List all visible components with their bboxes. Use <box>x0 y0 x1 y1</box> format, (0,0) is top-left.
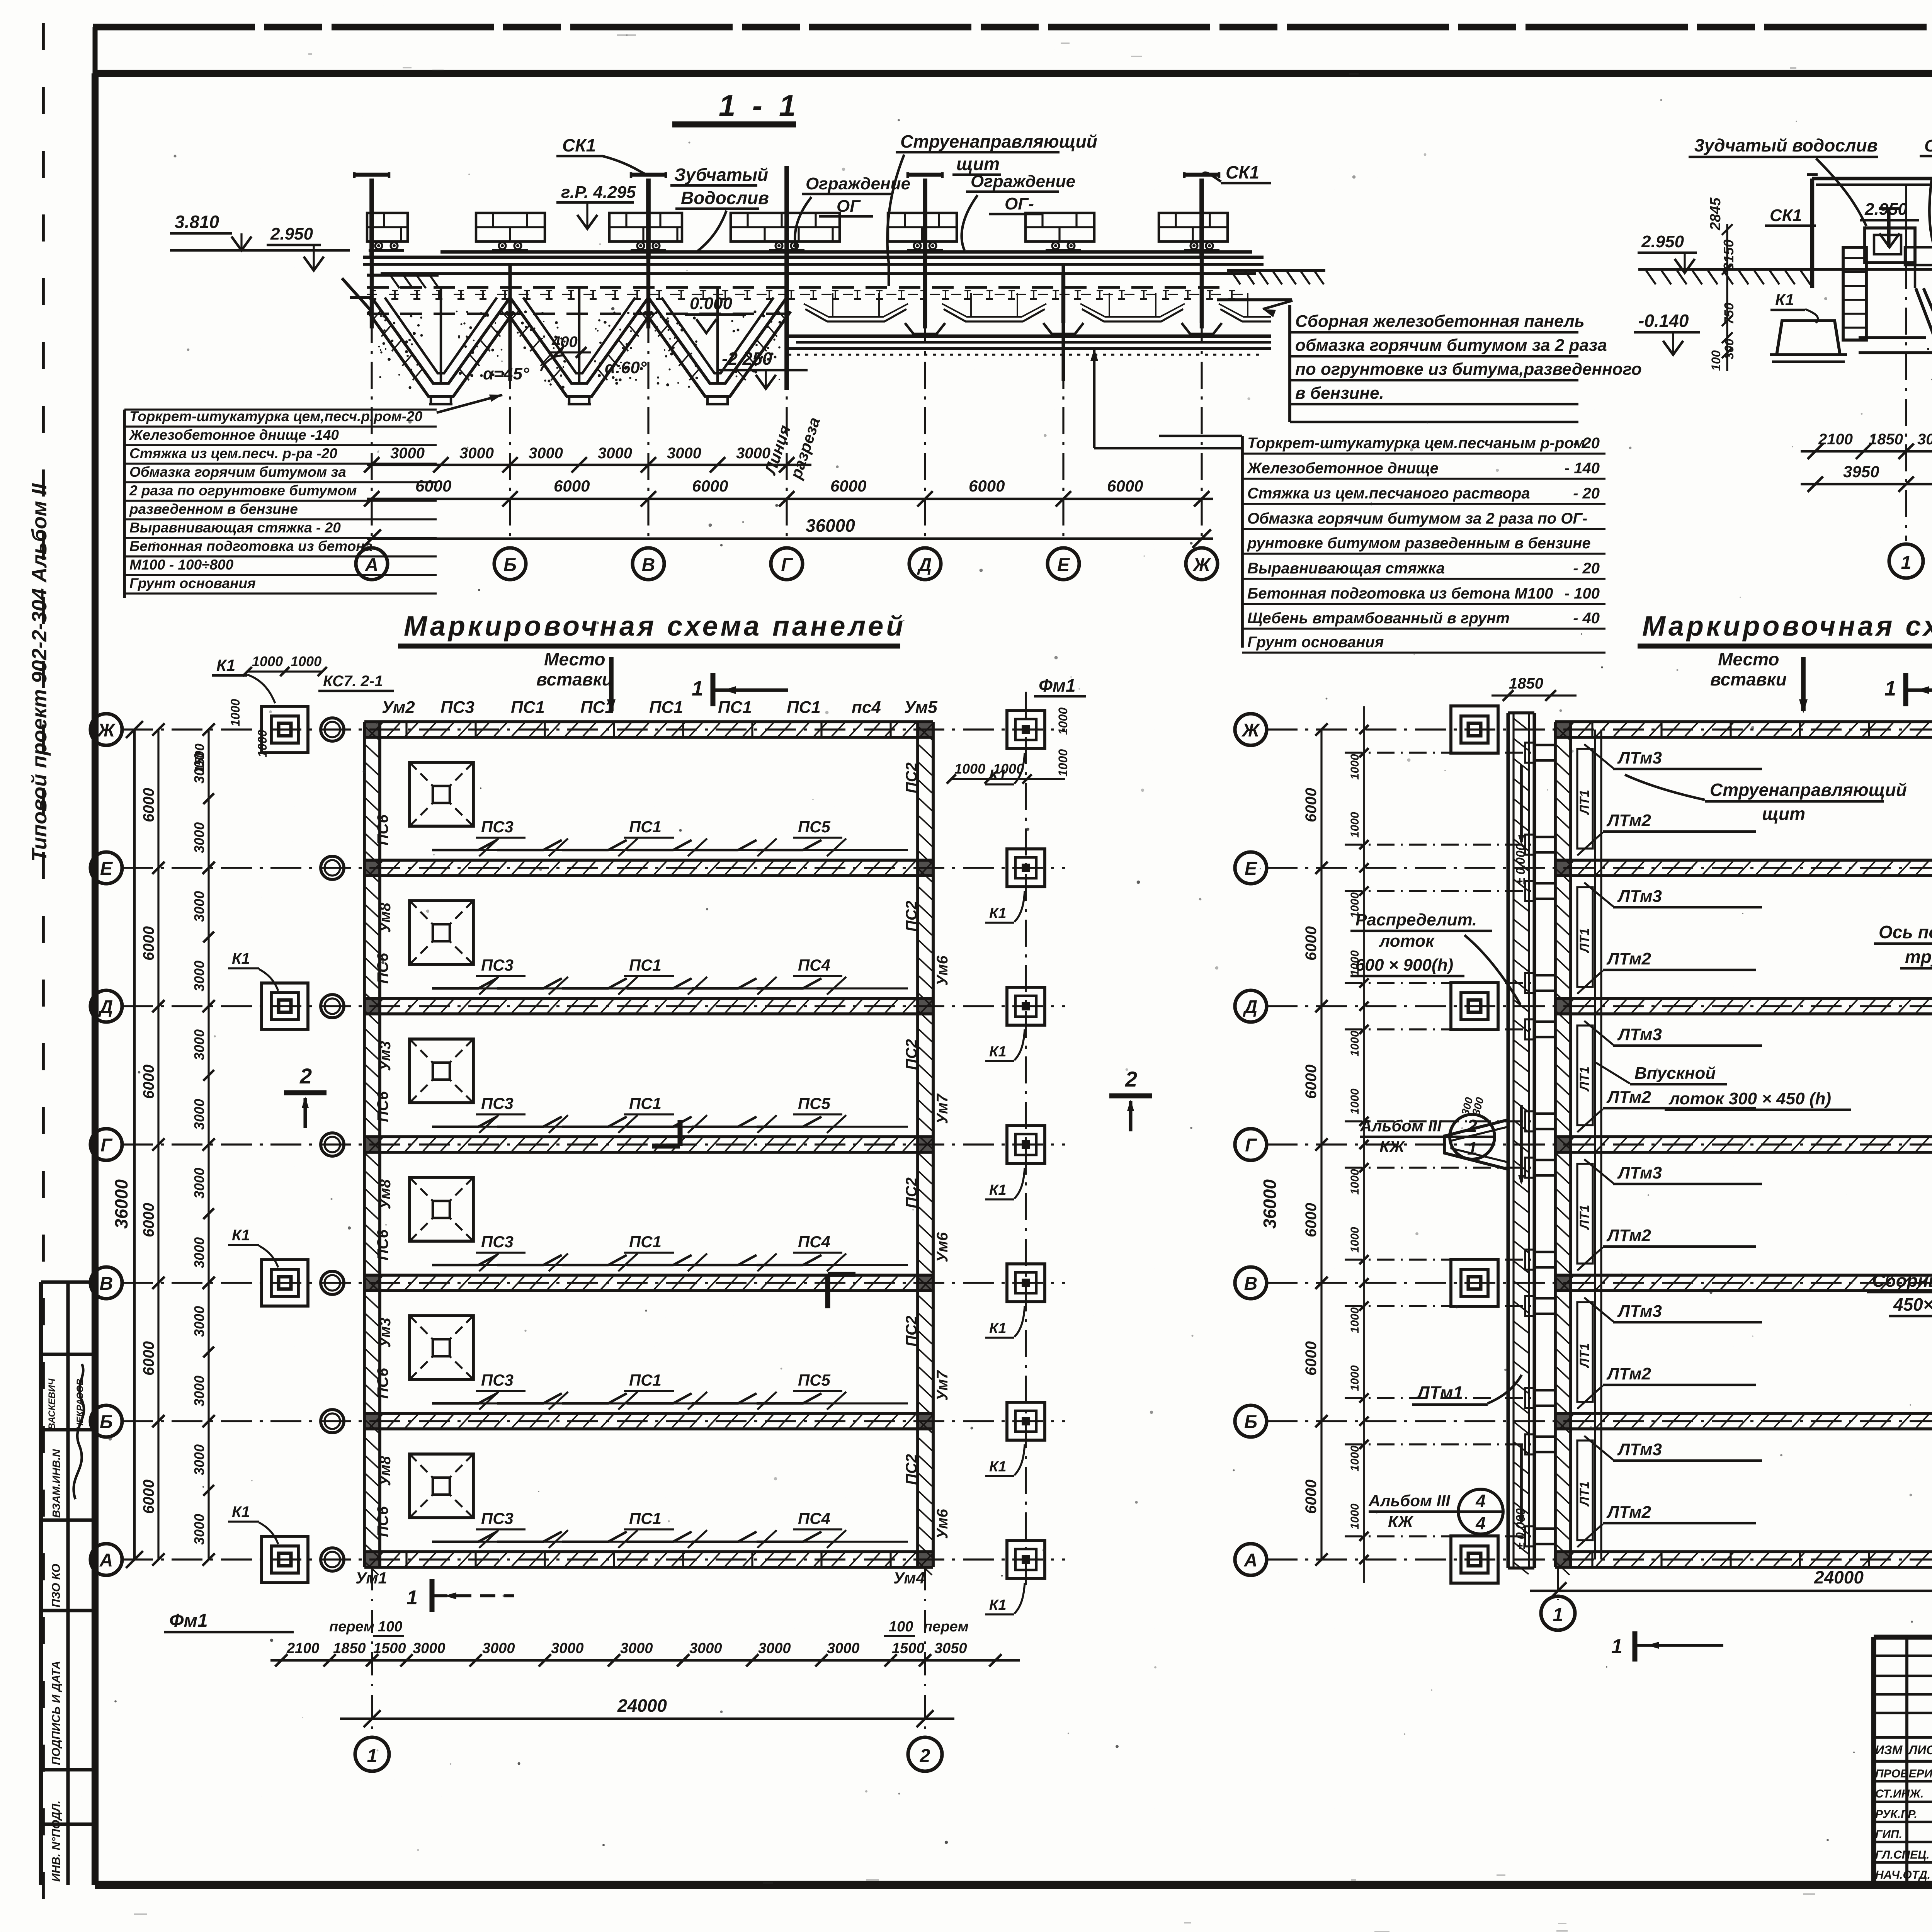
stamp divider 1 <box>41 1352 95 1356</box>
leader struenapr 2-2 <box>1929 177 1932 251</box>
inlet structure ladder <box>1843 247 1866 340</box>
axis circle В left plan <box>90 1267 122 1299</box>
axis 1 vertical dash right plan <box>1557 1567 1559 1600</box>
axis circle Ж right plan <box>1235 714 1267 745</box>
Фм1 square row Д <box>1007 987 1045 1025</box>
guard block 1 <box>367 213 408 241</box>
left plan wall row Е <box>364 859 933 862</box>
inlet structure box <box>1865 228 1915 263</box>
bottom dim chain left plan <box>270 1659 1020 1662</box>
leader zubchaty 2-2 <box>1816 158 1866 226</box>
fraction circle 4/4 <box>1458 1489 1503 1534</box>
ground line left stub <box>367 274 439 277</box>
second list left edge <box>1241 436 1244 648</box>
K1 square row Ж <box>262 706 308 753</box>
right bay 4 left tray <box>1577 1164 1593 1264</box>
axis line А left plan <box>122 1558 1065 1560</box>
mesto vstavki arrow left plan <box>609 657 614 711</box>
right plan wall row Б <box>1555 1412 1932 1415</box>
elevation 0.000 marker <box>696 319 716 333</box>
dim row 3000 line <box>367 464 811 466</box>
lower dashed level line <box>367 313 796 315</box>
fraction circle 2/1 <box>1450 1114 1495 1159</box>
right plan wall row В <box>1555 1274 1932 1277</box>
dim row 6000 line <box>367 498 1213 500</box>
sawtooth speckle 3 <box>657 382 660 385</box>
edge smudges <box>403 67 412 68</box>
top wall joint ticks right plan <box>1591 722 1593 737</box>
rail line thick <box>440 250 1252 253</box>
bay 3 deflector square <box>410 1039 473 1103</box>
axis circle В section 1-1 <box>633 548 664 580</box>
Фм1 square row Ж <box>1007 711 1045 748</box>
axis circle Д left plan <box>90 990 122 1022</box>
guard block 6 <box>1026 213 1094 241</box>
tooth slope hatch 2 <box>509 310 519 322</box>
ground line 2-2 <box>1638 268 1932 271</box>
leader ЛТм1 <box>1488 1375 1522 1403</box>
leader K1 top <box>247 675 275 703</box>
marker г.р.4.295 <box>577 215 597 229</box>
axis circle Е section 1-1 <box>1048 548 1079 580</box>
frame bottom edge <box>95 1881 1932 1889</box>
bay 2 step line <box>432 978 821 988</box>
scan noise specks <box>1426 421 1428 423</box>
leader ograzhdenie 2 <box>962 195 978 250</box>
elevation 3.810 marker <box>231 236 252 250</box>
section axis dash line Г <box>786 270 787 539</box>
rail unit 4 <box>769 249 804 252</box>
tank top line 2-2 <box>1812 177 1932 180</box>
bay 5 step line <box>432 1393 821 1403</box>
left plan bottom wall <box>364 1550 933 1553</box>
leader struenapr <box>887 155 904 286</box>
rail unit 6 <box>1046 249 1081 252</box>
distribution channel inner right <box>1528 713 1530 1568</box>
ground hatch 2-2 left <box>1646 270 1656 284</box>
tank floor slab 2-2 top left segment <box>1859 336 1926 339</box>
dim chain 2100 1850 3000 line <box>1801 450 1932 453</box>
axis circle Ж section 1-1 <box>1186 548 1218 580</box>
deflector circle Б <box>321 1410 344 1433</box>
leader ograzhdenie 1 <box>795 197 811 251</box>
panel top edge line <box>381 272 1256 275</box>
bay 4 deflector square <box>410 1177 473 1241</box>
dim vertical 3000 left plan <box>207 730 209 1560</box>
section jog piece bay4 <box>825 1274 830 1308</box>
axis line А right plan <box>1267 1558 1932 1560</box>
axis circle Ж left plan <box>90 714 122 745</box>
dim vertical 6000 left plan <box>157 730 159 1560</box>
axis line В right plan <box>1267 1282 1932 1284</box>
axis circle Д section 1-1 <box>909 548 941 580</box>
left list box left edge <box>123 410 126 598</box>
tank inner bottom tub outlines <box>805 309 906 321</box>
bay 4 step line <box>432 1255 821 1265</box>
title block name rows <box>1874 1780 1932 1783</box>
title block left edge <box>1871 1637 1876 1883</box>
axis line В left plan <box>122 1282 1065 1284</box>
axis line Б right plan <box>1267 1420 1932 1422</box>
left plan right wall <box>916 722 919 1567</box>
inlet small parts <box>1905 247 1932 265</box>
bottom 24000 line left plan <box>340 1718 954 1720</box>
bay 5 deflector square <box>410 1316 473 1379</box>
T-post CK1 1 <box>369 179 374 257</box>
Фм1 square row Е <box>1007 849 1045 887</box>
deflector circle А <box>321 1548 344 1571</box>
left list leader arrow <box>437 395 502 413</box>
left list top line <box>124 408 437 410</box>
stub dash lines and 1000 dims right plan <box>1345 752 1533 753</box>
axis circle Г section 1-1 <box>771 548 803 580</box>
axis circle А section 1-1 <box>356 548 388 580</box>
left collector inner lines <box>1594 730 1596 1560</box>
title block upper rows left part <box>1874 1655 1932 1657</box>
leader K1 left 2-2 <box>1805 309 1818 323</box>
axis circle 1 right plan <box>1541 1596 1575 1630</box>
cut line razreza vertical <box>784 166 789 390</box>
stamp divider 2 <box>41 1428 95 1431</box>
left dim vertical 2-2 <box>1726 224 1728 371</box>
K1 square row А <box>262 1536 308 1583</box>
axis line Д right plan <box>1267 1005 1932 1007</box>
Фм1 square row В <box>1007 1264 1045 1302</box>
right plan wall row Е <box>1555 859 1932 862</box>
leader to panel note arrow <box>1263 301 1293 309</box>
wall junction patches left plan <box>364 722 380 737</box>
axis circle Г right plan <box>1235 1129 1267 1160</box>
axis line Ж right plan <box>1267 728 1932 730</box>
axis circle Г left plan <box>90 1129 122 1160</box>
stamp signature squiggle <box>74 1364 84 1499</box>
Фм1 square row Г <box>1007 1126 1045 1163</box>
axis line Б left plan <box>122 1420 1065 1422</box>
deflector circle В <box>321 1271 344 1294</box>
left stamp column outer line <box>39 1282 43 1885</box>
intermediate post 2 <box>785 264 788 381</box>
second list top stub <box>1159 435 1242 437</box>
axis circle Е left plan <box>90 852 122 884</box>
left stamp column inner boundary <box>66 1282 70 1885</box>
ground hatch left end <box>390 275 400 288</box>
wall junction patches right plan <box>1555 722 1571 737</box>
panel note bottom line <box>1290 421 1578 423</box>
bay 6 step line <box>432 1532 821 1542</box>
tooth tip post 3 <box>716 287 719 382</box>
V pit left 2-2 <box>1923 288 1932 399</box>
top wall joint ticks <box>405 722 407 737</box>
walkway bottom slab line <box>363 263 1264 266</box>
dim row 36000 line <box>367 537 1213 540</box>
T-post CK1 2 <box>646 179 651 257</box>
tank floor mid line <box>796 341 1271 344</box>
axis circle Б left plan <box>90 1405 122 1437</box>
angle arc 45 <box>541 355 564 371</box>
axis circle В right plan <box>1235 1267 1267 1299</box>
axis line Е left plan <box>122 867 1065 869</box>
dim vertical 36000 left plan <box>133 730 136 1560</box>
K1 squares right plan <box>1451 706 1498 753</box>
right bay 6 left tray <box>1577 1440 1593 1540</box>
section jog piece bay3 <box>678 1120 683 1146</box>
left plan wall row Г <box>364 1135 933 1138</box>
axis circle 1 left plan <box>355 1737 389 1771</box>
right plan wall row Д <box>1555 997 1932 1000</box>
K1 square row Д <box>262 983 308 1029</box>
leader from floor list arrow <box>1093 349 1096 448</box>
distribution channel hatch <box>1514 719 1529 730</box>
section axis dash line Ж <box>1201 270 1202 539</box>
axis dash verticals 2-2 <box>1905 216 1907 541</box>
axis circle А left plan <box>90 1544 122 1575</box>
Фм1 square row Б <box>1007 1402 1045 1440</box>
sawtooth tooth 3 <box>648 298 787 383</box>
tank top line2 2-2 <box>1816 184 1932 186</box>
axis line Г left plan <box>122 1143 1065 1145</box>
right bay 3 left tray <box>1577 1026 1593 1125</box>
channel stubs right plan <box>1534 745 1555 760</box>
left pad K1 2-2 <box>1777 321 1840 355</box>
section axis dash line В <box>647 270 649 539</box>
stamp divider 4 <box>41 1609 95 1612</box>
bay 3 step line <box>432 1117 821 1127</box>
axis line Ж left plan <box>122 728 1065 730</box>
sawtooth tooth 2 <box>510 298 648 383</box>
section axis dash line Б <box>509 270 511 539</box>
right bay 5 left tray <box>1577 1302 1593 1402</box>
right bay 1 left tray <box>1577 749 1593 849</box>
channel funnel at Г <box>1444 1120 1508 1169</box>
axis circle Е right plan <box>1235 852 1267 884</box>
axis line Д left plan <box>122 1005 1065 1007</box>
section axis dash line Д <box>924 270 926 539</box>
left plan wall row Б <box>364 1412 933 1415</box>
axis line Г right plan <box>1267 1143 1932 1145</box>
guard block 3 <box>609 213 682 241</box>
frame top band left end <box>93 27 98 73</box>
frame top outer line <box>93 24 1932 31</box>
panel note top leader line <box>1217 298 1292 301</box>
axis 2 vertical dash left plan <box>924 1567 926 1737</box>
left slope top edge <box>350 296 372 299</box>
dim vertical 6000 right plan <box>1320 730 1322 1560</box>
distribution channel caps <box>1508 711 1534 714</box>
right plan left wall <box>1554 722 1557 1567</box>
T-post CK1 3 <box>923 179 927 257</box>
left plan title underline <box>398 644 900 649</box>
rail unit 7 <box>1184 249 1219 252</box>
channel flow arrows <box>1520 765 1523 842</box>
title block outer top <box>1874 1635 1932 1640</box>
tank floor slab 2-2 bottom left segment <box>1859 351 1932 354</box>
bay 6 deflector square <box>410 1454 473 1518</box>
frame left edge <box>92 73 99 1885</box>
bay 2 deflector square <box>410 901 473 964</box>
distribution channel outer right <box>1532 713 1536 1568</box>
deflector circle Д <box>321 995 344 1018</box>
rail anchors row <box>372 291 374 299</box>
tank floor bottom line <box>787 347 1271 350</box>
left plan wall row В <box>364 1274 933 1277</box>
deflector circle Ж <box>321 718 344 741</box>
inlet gate stem <box>1887 209 1890 247</box>
Фм1 column left plan <box>1025 692 1027 1588</box>
walkway top slab line <box>363 255 1264 259</box>
tooth tip post 1 <box>440 287 442 382</box>
panel foot 1 <box>905 323 945 334</box>
leader zubchaty <box>697 211 726 251</box>
left plan left wall <box>363 722 366 1567</box>
elevation -2.250 marker <box>756 375 776 389</box>
bay 1 step line <box>432 840 821 850</box>
tooth slope hatch 1 <box>371 310 381 322</box>
ground line right stub <box>1227 269 1325 272</box>
right plan wall row Г <box>1555 1135 1932 1138</box>
left post 2-2 <box>1810 179 1814 288</box>
panel foot 2 <box>1043 323 1083 334</box>
water level dashed line <box>367 286 1229 289</box>
leader раздел лоток <box>1464 935 1520 1005</box>
axis 1 vertical dash left plan <box>371 1567 373 1737</box>
stamp divider 3 <box>41 1518 95 1522</box>
guard block 4 <box>731 213 840 241</box>
Фм1 square row А <box>1007 1541 1045 1578</box>
right bay 2 left tray <box>1577 887 1593 987</box>
left stamp column top <box>41 1280 95 1284</box>
panel note box left edge <box>1288 305 1291 422</box>
axis circle Б right plan <box>1235 1405 1267 1437</box>
axis circle 2 left plan <box>908 1737 942 1771</box>
rail unit 1 <box>369 249 404 252</box>
ground hatch right of section <box>1231 270 1240 284</box>
title block header row lines <box>1874 1736 1932 1739</box>
axis circle Б section 1-1 <box>494 548 526 580</box>
tank floor bed dotted <box>788 354 1260 355</box>
mesto vstavki arrow right plan <box>1801 657 1806 711</box>
sawtooth tooth 1 <box>372 298 510 383</box>
vertical tick line right plan stubs <box>1363 706 1365 1583</box>
rail unit 5 <box>907 249 943 252</box>
section axis dash line Е <box>1062 270 1064 539</box>
K1 square row В <box>262 1260 308 1306</box>
stamp divider 6 <box>41 1822 95 1826</box>
tooth slope hatch 3 <box>648 310 658 322</box>
tooth tip post 2 <box>578 287 581 382</box>
dim row 2 line 2-2 <box>1801 483 1932 486</box>
guard block 5 <box>888 213 957 241</box>
stamp divider 5 <box>41 1768 95 1771</box>
left post cap 2-2 <box>1807 173 1818 176</box>
leader CK1 right <box>1202 173 1221 182</box>
intermediate post 3 <box>1061 264 1065 381</box>
axis circle 1 section 2-2 <box>1889 544 1923 578</box>
section 1-1 title underline <box>672 121 796 128</box>
panel joints 2-2 <box>1905 185 1907 270</box>
deflector circle Е <box>321 856 344 879</box>
title block verticals <box>1905 1637 1908 1883</box>
leader CK1 left <box>603 156 646 175</box>
axis line Е right plan <box>1267 867 1932 869</box>
rail unit 3 <box>631 249 666 252</box>
left slope excavation <box>342 278 372 311</box>
inner tank wall verticals <box>832 293 833 316</box>
bottom 24000 line right plan <box>1530 1590 1932 1592</box>
elevation 2.950 marker <box>304 257 324 270</box>
left plan wall row Д <box>364 997 933 1000</box>
anchors dashed line <box>367 294 1252 295</box>
right plan top wall <box>1555 720 1932 723</box>
axis circle А right plan <box>1235 1544 1267 1575</box>
intermediate post 1 <box>508 264 512 381</box>
tank inner bottom right stub <box>1220 309 1271 321</box>
left plan top wall <box>364 720 933 723</box>
axis circle Д right plan <box>1235 990 1267 1022</box>
right plan bottom wall <box>1555 1550 1932 1553</box>
frame top inner line <box>93 70 1932 77</box>
guard block 7 <box>1159 213 1228 241</box>
guard block 2 <box>476 213 545 241</box>
sheet trim border left dashed <box>42 23 45 1928</box>
sawtooth speckle 1 <box>393 322 396 325</box>
distribution channel inner left <box>1512 713 1514 1568</box>
distribution channel outer left <box>1506 713 1510 1568</box>
tank floor top line <box>787 334 1271 338</box>
panel foot 3 <box>1182 323 1222 334</box>
rail unit 2 <box>492 249 528 252</box>
sawtooth speckle 2 <box>556 367 558 369</box>
right plan title underline <box>1638 644 1932 649</box>
section axis dash line А <box>371 270 372 539</box>
T-post CK1 4 <box>1199 179 1204 257</box>
bay 1 deflector square <box>410 762 473 826</box>
deflector circle Г <box>321 1133 344 1156</box>
